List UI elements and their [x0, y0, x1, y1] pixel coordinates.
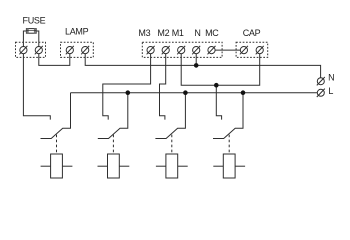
wire: tap to switch S4 fixed contact	[216, 85, 221, 119]
capacitor terminal T1	[240, 46, 248, 54]
wire: fuse T1 down to switch S1 fixed contact	[23, 50, 50, 120]
push button K1 body	[51, 154, 63, 178]
switch S1 (lamp) arm	[41, 93, 71, 139]
node: N drop junction	[194, 63, 199, 68]
wire: fuse F1 right lead	[36, 31, 39, 50]
terminal block X1 (fuse) dashed box	[16, 42, 46, 57]
mechanical link S1 to button K1	[56, 135, 58, 154]
svg-text:L: L	[328, 86, 333, 96]
wire: fuse T2 to lamp T1	[39, 50, 70, 65]
svg-text:CAP: CAP	[243, 28, 261, 38]
svg-text:FUSE: FUSE	[23, 15, 46, 25]
motor terminal M1	[177, 46, 185, 54]
terminal block X3 (motor M3 M2 M1 N MC) dashed box	[142, 42, 222, 57]
wire: MC terminal to CAP T1	[212, 49, 244, 51]
wire: fuse F1 left lead	[23, 31, 26, 50]
push button K3 body	[166, 154, 178, 178]
lamp terminal T2	[81, 46, 89, 54]
mains terminal L	[317, 89, 325, 97]
wire: M2 drop, step to switch S3 fixed contact	[160, 50, 166, 120]
terminal block X2 (lamp) dashed box	[61, 42, 94, 57]
mains terminal N	[317, 77, 325, 85]
lamp terminal T1	[66, 46, 74, 54]
wire: M1 drop, line to CAP T2	[181, 50, 260, 85]
switch S4 (speed M1) arm	[213, 93, 243, 139]
fuse terminal T1	[19, 46, 27, 54]
capacitor terminal T2	[256, 46, 264, 54]
svg-text:M2: M2	[157, 28, 169, 38]
svg-text:MC: MC	[205, 28, 219, 38]
svg-text:N: N	[328, 72, 334, 82]
svg-text:M3: M3	[138, 28, 150, 38]
mechanical link S3 to button K3	[171, 135, 173, 154]
mechanical link S4 to button K4	[228, 135, 230, 154]
wire: M3 drop, bus to switch S2 fixed contact	[103, 50, 151, 120]
motor terminal N	[192, 46, 200, 54]
node: S3 arm on L bus	[183, 90, 188, 95]
node: S4 arm on L bus	[241, 90, 246, 95]
push button K4 body	[223, 154, 235, 178]
mechanical link S2 to button K2	[112, 135, 114, 154]
fuse terminal T2	[35, 46, 43, 54]
terminal block X4 (capacitor) dashed box	[236, 42, 268, 57]
push button K2 body	[108, 154, 120, 178]
switch S3 (speed M2) arm	[155, 93, 185, 139]
motor terminal M3	[147, 46, 155, 54]
motor terminal M2	[162, 46, 170, 54]
svg-text:N: N	[194, 28, 200, 38]
svg-text:M1: M1	[172, 28, 184, 38]
fuse F1 body	[26, 29, 36, 34]
node: S4 feed tap junction	[214, 83, 219, 88]
switch S2 (speed M3) arm	[98, 93, 128, 139]
svg-text:LAMP: LAMP	[65, 27, 89, 37]
node: S2 arm on L bus	[126, 90, 131, 95]
wire: N terminal drop to N line	[195, 50, 197, 65]
wire: L bus to mains L terminal	[71, 92, 321, 94]
wire: lamp T2 along N line to mains N terminal	[85, 50, 320, 81]
motor terminal MC	[208, 46, 216, 54]
